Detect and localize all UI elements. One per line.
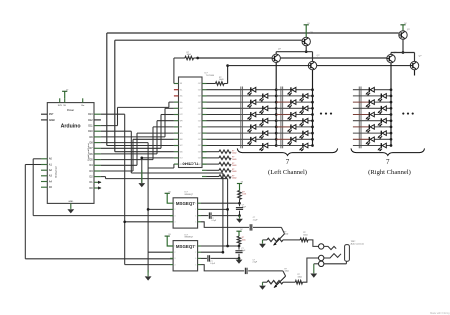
- svg-text:OUT: OUT: [180, 158, 183, 160]
- svg-text:VPR: VPR: [180, 120, 183, 122]
- svg-text:10kΩ: 10kΩ: [187, 54, 192, 56]
- svg-text:OUT: OUT: [198, 133, 201, 135]
- svg-text:TLC5940: TLC5940: [206, 75, 215, 77]
- svg-text:OUT: OUT: [198, 145, 201, 147]
- svg-text:GND: GND: [180, 151, 183, 153]
- svg-text:DCP: DCP: [180, 114, 183, 116]
- svg-text:SIN: SIN: [180, 83, 182, 85]
- svg-text:(Right Channel): (Right Channel): [368, 169, 411, 176]
- svg-text:OUT: OUT: [198, 120, 201, 122]
- svg-text:D10: D10: [88, 130, 93, 133]
- svg-text:10kΩ: 10kΩ: [284, 234, 289, 236]
- svg-text:MSGEQ7: MSGEQ7: [185, 237, 194, 239]
- svg-text:IRE: IRE: [180, 127, 182, 129]
- svg-text:MSGEQ7: MSGEQ7: [176, 244, 195, 249]
- svg-text:OUT: OUT: [198, 83, 201, 85]
- svg-text:OUT: OUT: [198, 114, 201, 116]
- svg-text:7: 7: [386, 158, 390, 166]
- svg-text:100Ω: 100Ω: [232, 177, 237, 179]
- svg-text:(Left Channel): (Left Channel): [268, 169, 307, 176]
- svg-text:D12: D12: [88, 119, 93, 122]
- svg-text:SCL: SCL: [180, 89, 183, 91]
- svg-text:100Ω: 100Ω: [232, 153, 237, 155]
- svg-text:OUT: OUT: [180, 164, 183, 166]
- svg-text:10kΩ: 10kΩ: [285, 271, 290, 273]
- svg-text:100k: 100k: [242, 194, 246, 196]
- svg-text:OUT: OUT: [198, 102, 201, 104]
- svg-text:GND: GND: [68, 201, 73, 203]
- svg-text:Audio Connector: Audio Connector: [351, 242, 365, 245]
- svg-text:RST: RST: [49, 114, 54, 116]
- svg-text:MSGEQ7: MSGEQ7: [185, 194, 194, 196]
- svg-text:OUT: OUT: [198, 151, 201, 153]
- svg-text:SOU: SOU: [180, 133, 183, 135]
- svg-text:XER: XER: [180, 139, 183, 141]
- svg-text:OUT: OUT: [198, 158, 201, 160]
- svg-text:AREF: AREF: [49, 119, 56, 122]
- svg-text:OUT: OUT: [198, 108, 201, 110]
- svg-text:Arduino: Arduino: [61, 124, 81, 130]
- svg-text:VCC: VCC: [180, 145, 183, 147]
- svg-text:100Ω: 100Ω: [232, 171, 237, 173]
- svg-text:7: 7: [286, 158, 290, 166]
- svg-text:D11: D11: [88, 125, 93, 128]
- svg-text:Analog Input: Analog Input: [55, 166, 58, 178]
- svg-text:D13: D13: [88, 113, 93, 116]
- svg-text:OUT: OUT: [198, 127, 201, 129]
- svg-text:TLC5940: TLC5940: [182, 161, 198, 165]
- svg-text:OUT: OUT: [198, 139, 201, 141]
- svg-text:OUT: OUT: [198, 164, 201, 166]
- svg-text:10kΩ: 10kΩ: [298, 276, 303, 278]
- svg-text:OUT: OUT: [198, 89, 201, 91]
- svg-text:10kΩ: 10kΩ: [303, 234, 308, 236]
- svg-text:MSGEQ7: MSGEQ7: [176, 201, 195, 206]
- svg-text:OUT: OUT: [198, 96, 201, 98]
- svg-text:Made with Fritzing: Made with Fritzing: [430, 312, 450, 315]
- svg-text:GSC: GSC: [180, 108, 183, 110]
- svg-text:100Ω: 100Ω: [232, 159, 237, 161]
- svg-text:Digital Input/Output: Digital Input/Output: [87, 143, 90, 161]
- svg-text:Power: Power: [67, 109, 74, 112]
- svg-text:100Ω: 100Ω: [232, 165, 237, 167]
- svg-text:10kΩ: 10kΩ: [219, 79, 224, 81]
- svg-text:100k: 100k: [242, 239, 246, 241]
